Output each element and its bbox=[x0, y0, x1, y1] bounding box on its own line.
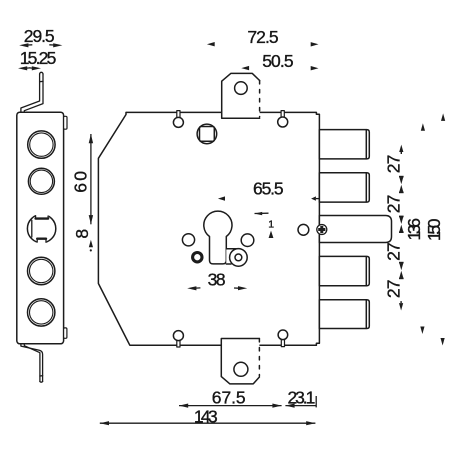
faceplate cylinder hole bbox=[27, 213, 55, 244]
faceplate hole 2 bbox=[28, 168, 54, 194]
top-right rivet pin bbox=[278, 111, 288, 127]
svg-text:27: 27 bbox=[383, 195, 403, 214]
dim 23.1 end tick bbox=[315, 396, 317, 407]
faceplate right lip top bbox=[64, 116, 67, 129]
dim 8 arrow and dot bbox=[89, 240, 93, 247]
faceplate hole 5 bbox=[28, 299, 55, 326]
hole right of keyhole bbox=[241, 234, 254, 247]
bottom mounting tab bbox=[221, 339, 259, 384]
dim 1 arrows bbox=[255, 212, 263, 215]
top mounting tab bbox=[222, 73, 260, 118]
faceplate right lip bottom bbox=[64, 328, 67, 338]
svg-text:1: 1 bbox=[268, 218, 274, 230]
faceplate hole 1 bbox=[28, 131, 55, 158]
dim 67.5 line bbox=[179, 405, 282, 407]
dim 1 leader line bbox=[255, 212, 269, 214]
dim 67.5 arrows bbox=[179, 404, 188, 408]
svg-text:150: 150 bbox=[424, 218, 444, 241]
dim 50.5 arrows bbox=[241, 66, 249, 70]
deadbolt 1 bbox=[319, 130, 369, 159]
svg-text:65.5: 65.5 bbox=[253, 179, 284, 199]
svg-text:72.5: 72.5 bbox=[247, 27, 278, 47]
faceplate (left side view) bbox=[17, 112, 64, 344]
svg-text:50.5: 50.5 bbox=[262, 51, 293, 71]
deadbolt 3 bbox=[319, 256, 369, 285]
dim 29.5 arrows bbox=[19, 43, 28, 47]
deadbolt 4 bbox=[319, 300, 369, 329]
faceplate bottom bent tab bbox=[21, 344, 43, 382]
square spindle follower hole bbox=[197, 124, 217, 144]
dim 15.25 arrow tails bbox=[27, 67, 31, 69]
right column dim 27 bottom arrow bbox=[399, 303, 403, 310]
dim 38 arrow tails bbox=[196, 287, 201, 289]
svg-text:27: 27 bbox=[383, 155, 403, 174]
svg-text:23.1: 23.1 bbox=[287, 388, 315, 408]
svg-text:67.5: 67.5 bbox=[212, 387, 246, 407]
dim 72.5 arrows bbox=[207, 42, 215, 46]
cam follower plate bbox=[226, 249, 243, 264]
hourglass tick 3 bbox=[399, 262, 404, 279]
dim 38 arrows bbox=[187, 286, 196, 290]
deadbolt 2 bbox=[319, 173, 369, 202]
dim 29.5 arrow tails bbox=[28, 44, 32, 46]
phillips screw on right edge bbox=[317, 225, 327, 235]
dim 60 line bbox=[90, 134, 92, 224]
dim 143 arrows bbox=[100, 421, 109, 425]
bold ring bush bbox=[193, 253, 202, 262]
bottom-right rivet pin bbox=[278, 330, 288, 347]
dim 23.1 arrow bbox=[285, 404, 294, 408]
svg-text:27: 27 bbox=[383, 242, 403, 261]
faceplate top bent tab bbox=[21, 72, 43, 112]
dim 15.25 arrows bbox=[18, 66, 27, 70]
hourglass tick 1 bbox=[399, 176, 404, 193]
svg-text:143: 143 bbox=[194, 407, 218, 427]
top-left rivet pin bbox=[173, 111, 183, 128]
lock body outline bbox=[98, 112, 319, 345]
cam follower roller bbox=[230, 249, 248, 267]
hourglass tick 2 bbox=[399, 216, 404, 233]
svg-text:8: 8 bbox=[72, 229, 92, 239]
small hole near right edge bbox=[298, 224, 309, 235]
svg-text:136: 136 bbox=[404, 218, 424, 241]
right column dim 27 top arrow bbox=[399, 145, 403, 152]
dim 136 end arrows bbox=[421, 123, 425, 131]
svg-text:15.25: 15.25 bbox=[20, 48, 57, 68]
dim 65.5 arrows bbox=[218, 196, 225, 200]
dim 143 line bbox=[100, 422, 316, 424]
faceplate hole 4 bbox=[28, 257, 55, 284]
svg-text:38: 38 bbox=[208, 269, 226, 289]
hole left of keyhole bbox=[182, 234, 194, 246]
euro cylinder keyhole bbox=[204, 211, 232, 264]
dim 150 end arrows bbox=[441, 113, 445, 121]
svg-text:60: 60 bbox=[71, 171, 91, 193]
svg-text:29.5: 29.5 bbox=[24, 26, 55, 46]
bottom-left rivet pin bbox=[173, 331, 183, 347]
center latch bolt bbox=[319, 216, 391, 243]
svg-text:27: 27 bbox=[383, 279, 403, 298]
dim 23.1 line bbox=[285, 405, 316, 407]
dim 60 arrows bbox=[89, 134, 93, 143]
